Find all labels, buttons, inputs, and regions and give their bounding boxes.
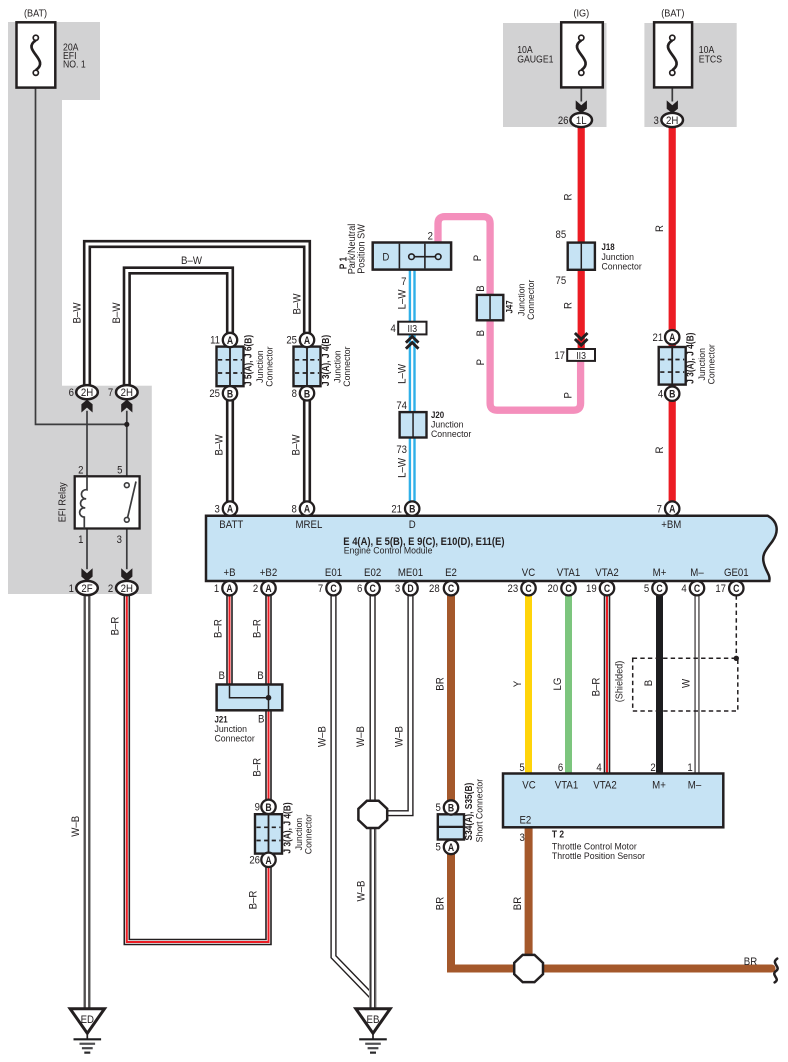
svg-text:B: B: [219, 669, 225, 682]
svg-text:Connector: Connector: [602, 261, 642, 271]
svg-text:A: A: [448, 842, 454, 854]
svg-text:3: 3: [117, 535, 123, 547]
svg-text:Engine Control Module: Engine Control Module: [344, 545, 433, 555]
svg-text:1: 1: [69, 583, 75, 595]
svg-text:A: A: [304, 335, 310, 347]
svg-text:P: P: [474, 359, 487, 365]
svg-text:1: 1: [687, 762, 693, 774]
svg-text:R: R: [562, 302, 575, 309]
svg-text:Position SW: Position SW: [356, 224, 367, 274]
svg-text:(Shielded): (Shielded): [614, 661, 625, 703]
svg-text:2: 2: [650, 762, 656, 774]
svg-text:EFI Relay: EFI Relay: [57, 482, 68, 522]
svg-text:B–W: B–W: [71, 303, 84, 324]
svg-text:21: 21: [391, 504, 402, 516]
svg-text:P: P: [562, 392, 575, 398]
svg-text:J18: J18: [602, 241, 615, 252]
svg-text:1L: 1L: [576, 114, 587, 127]
svg-text:20: 20: [548, 584, 559, 596]
svg-text:74: 74: [396, 401, 407, 413]
svg-text:B–R: B–R: [251, 758, 264, 777]
svg-text:1: 1: [78, 535, 84, 547]
svg-text:Connector: Connector: [342, 346, 352, 386]
svg-text:E01: E01: [325, 566, 342, 579]
svg-text:C: C: [330, 583, 336, 595]
svg-text:B: B: [304, 388, 310, 400]
svg-text:6: 6: [69, 387, 75, 399]
svg-text:B–W: B–W: [290, 435, 303, 456]
svg-text:2H: 2H: [121, 582, 133, 595]
svg-text:R: R: [653, 225, 666, 232]
svg-text:5: 5: [519, 762, 525, 774]
svg-text:8: 8: [291, 504, 297, 516]
svg-text:Connector: Connector: [215, 734, 255, 744]
svg-text:VTA1: VTA1: [557, 566, 581, 579]
svg-text:L–W: L–W: [396, 290, 409, 310]
svg-text:E02: E02: [364, 566, 381, 579]
svg-text:Short Connector: Short Connector: [475, 779, 485, 843]
svg-text:J47: J47: [504, 300, 515, 313]
svg-text:E2: E2: [445, 566, 457, 579]
svg-text:A: A: [304, 504, 310, 516]
svg-text:7: 7: [401, 276, 407, 288]
svg-text:2: 2: [428, 231, 434, 243]
svg-text:D: D: [382, 251, 389, 264]
svg-text:B: B: [227, 388, 233, 400]
svg-text:+BM: +BM: [661, 518, 681, 531]
svg-text:L–W: L–W: [396, 364, 409, 384]
svg-text:3: 3: [519, 832, 525, 844]
svg-text:A: A: [265, 583, 271, 595]
svg-text:Connector: Connector: [303, 814, 313, 854]
svg-text:1: 1: [214, 584, 220, 596]
svg-text:C: C: [694, 583, 700, 595]
svg-text:VTA1: VTA1: [555, 779, 579, 792]
svg-text:A: A: [226, 583, 232, 595]
svg-text:VTA2: VTA2: [593, 779, 617, 792]
svg-text:2F: 2F: [81, 582, 93, 595]
svg-text:B–R: B–R: [251, 619, 264, 638]
svg-text:3: 3: [653, 115, 659, 127]
svg-text:B–W: B–W: [213, 435, 226, 456]
svg-text:75: 75: [556, 275, 567, 287]
svg-text:+B2: +B2: [260, 566, 278, 579]
svg-text:Connector: Connector: [526, 280, 536, 320]
svg-text:C: C: [448, 583, 454, 595]
svg-text:17: 17: [554, 350, 565, 362]
svg-text:ETCS: ETCS: [699, 54, 722, 65]
svg-text:2H: 2H: [666, 114, 678, 127]
svg-text:Y: Y: [511, 681, 524, 687]
svg-text:BR: BR: [434, 896, 447, 910]
svg-text:M–: M–: [690, 566, 703, 579]
svg-text:4: 4: [596, 762, 602, 774]
svg-text:B: B: [642, 680, 655, 686]
svg-text:II3: II3: [576, 350, 586, 362]
svg-text:(BAT): (BAT): [661, 8, 684, 19]
svg-text:R: R: [562, 193, 575, 200]
svg-text:S34(A), S35(B): S34(A), S35(B): [463, 783, 474, 841]
svg-text:6: 6: [357, 584, 363, 596]
svg-text:4: 4: [681, 584, 687, 596]
svg-text:W–B: W–B: [69, 816, 82, 837]
svg-text:Connector: Connector: [431, 429, 471, 439]
svg-text:GE01: GE01: [724, 566, 749, 579]
svg-text:23: 23: [508, 584, 519, 596]
svg-text:BATT: BATT: [219, 518, 243, 531]
svg-text:ED: ED: [81, 1013, 95, 1026]
svg-text:J20: J20: [431, 409, 444, 420]
svg-text:(BAT): (BAT): [24, 8, 47, 19]
svg-text:ME01: ME01: [398, 566, 423, 579]
svg-text:J 3(A), J 4(B): J 3(A), J 4(B): [282, 802, 293, 853]
svg-text:4: 4: [658, 389, 664, 401]
svg-text:5: 5: [435, 803, 441, 815]
svg-text:M+: M+: [653, 566, 667, 579]
svg-text:W–B: W–B: [316, 726, 329, 747]
svg-text:+B: +B: [223, 566, 235, 579]
svg-text:II3: II3: [407, 323, 417, 335]
svg-text:21: 21: [653, 332, 664, 344]
svg-text:26: 26: [249, 855, 260, 867]
svg-text:J 3(A), J 4(B): J 3(A), J 4(B): [320, 335, 331, 386]
svg-text:(IG): (IG): [573, 8, 589, 19]
svg-text:2H: 2H: [121, 386, 133, 399]
svg-text:C: C: [565, 583, 571, 595]
svg-text:Connector: Connector: [264, 346, 274, 386]
svg-text:MREL: MREL: [296, 518, 323, 531]
svg-text:W–B: W–B: [393, 726, 406, 747]
svg-text:5: 5: [117, 465, 123, 477]
svg-text:M–: M–: [688, 779, 701, 792]
svg-text:A: A: [265, 855, 271, 867]
svg-text:2H: 2H: [81, 386, 93, 399]
svg-text:7: 7: [108, 387, 114, 399]
svg-text:T 2: T 2: [552, 829, 564, 840]
svg-text:3: 3: [395, 584, 401, 596]
svg-text:EB: EB: [367, 1013, 380, 1026]
svg-text:7: 7: [657, 504, 663, 516]
svg-text:B–W: B–W: [181, 254, 202, 267]
svg-text:B: B: [448, 803, 454, 815]
svg-text:17: 17: [715, 584, 726, 596]
svg-text:C: C: [604, 583, 610, 595]
svg-text:B: B: [258, 713, 264, 726]
svg-text:B: B: [265, 802, 271, 814]
svg-text:Connector: Connector: [707, 344, 717, 384]
svg-text:BR: BR: [511, 896, 524, 910]
svg-text:B: B: [257, 669, 263, 682]
svg-text:7: 7: [318, 584, 324, 596]
svg-text:C: C: [525, 583, 531, 595]
svg-text:B–R: B–R: [109, 616, 122, 635]
svg-text:B–W: B–W: [110, 303, 123, 324]
svg-text:BR: BR: [434, 677, 447, 691]
svg-text:BR: BR: [744, 955, 758, 968]
svg-text:2: 2: [108, 583, 114, 595]
svg-text:W–B: W–B: [354, 726, 367, 747]
svg-text:73: 73: [396, 444, 407, 456]
svg-text:B: B: [474, 285, 487, 291]
svg-text:25: 25: [286, 335, 297, 347]
svg-text:B: B: [409, 504, 415, 516]
svg-text:C: C: [656, 583, 662, 595]
svg-text:A: A: [669, 332, 675, 344]
svg-text:3: 3: [214, 504, 220, 516]
svg-text:W: W: [680, 679, 693, 688]
svg-text:4: 4: [390, 323, 396, 335]
svg-text:B–R: B–R: [590, 677, 603, 696]
svg-text:6: 6: [558, 762, 564, 774]
svg-text:19: 19: [586, 584, 597, 596]
svg-text:A: A: [227, 335, 233, 347]
svg-text:D: D: [407, 583, 413, 595]
svg-text:VTA2: VTA2: [595, 566, 619, 579]
svg-text:B: B: [474, 330, 487, 336]
svg-text:LG: LG: [551, 678, 564, 691]
svg-text:8: 8: [292, 388, 298, 400]
svg-text:R: R: [653, 446, 666, 453]
svg-text:11: 11: [210, 335, 220, 347]
svg-text:5: 5: [644, 584, 650, 596]
svg-text:28: 28: [429, 584, 440, 596]
svg-text:26: 26: [558, 115, 569, 127]
svg-text:85: 85: [556, 229, 567, 241]
svg-text:B–R: B–R: [212, 619, 225, 638]
svg-text:9: 9: [255, 802, 261, 814]
svg-text:VC: VC: [522, 779, 536, 792]
svg-text:J 3(A), J 4(B): J 3(A), J 4(B): [685, 333, 696, 384]
svg-text:B–W: B–W: [291, 294, 304, 315]
svg-text:L–W: L–W: [396, 458, 409, 478]
svg-text:VC: VC: [522, 566, 536, 579]
svg-text:2: 2: [78, 465, 84, 477]
svg-text:2: 2: [253, 584, 259, 596]
svg-text:E2: E2: [520, 814, 532, 827]
svg-text:W–B: W–B: [355, 881, 368, 902]
svg-text:5: 5: [435, 842, 441, 854]
svg-text:Throttle Position Sensor: Throttle Position Sensor: [552, 851, 645, 861]
svg-text:GAUGE1: GAUGE1: [517, 54, 553, 65]
svg-text:M+: M+: [652, 779, 666, 792]
svg-text:25: 25: [209, 388, 220, 400]
svg-text:B–R: B–R: [247, 890, 260, 909]
svg-text:A: A: [669, 504, 675, 516]
svg-text:C: C: [733, 583, 739, 595]
svg-text:J21: J21: [215, 714, 228, 725]
svg-text:NO. 1: NO. 1: [63, 59, 86, 70]
svg-text:A: A: [227, 504, 233, 516]
svg-text:P: P: [471, 255, 484, 261]
svg-text:B: B: [669, 389, 675, 401]
svg-text:J 5(A), J 6(B): J 5(A), J 6(B): [243, 335, 254, 386]
svg-text:C: C: [369, 583, 375, 595]
svg-text:D: D: [409, 518, 416, 531]
